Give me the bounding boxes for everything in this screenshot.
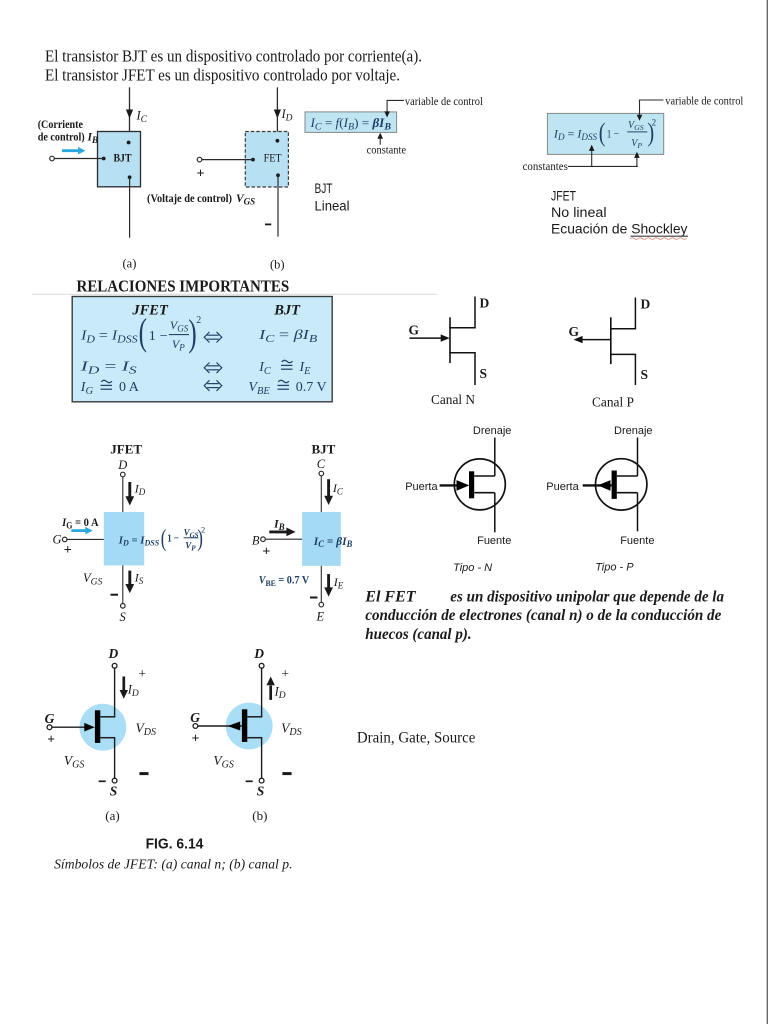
svg-text:(a): (a) [105, 808, 119, 823]
base current arrow [269, 530, 288, 533]
svg-text:VGS: VGS [64, 753, 84, 771]
drain bar [449, 327, 475, 329]
svg-text:+: + [281, 666, 289, 681]
spellcheck squiggle [631, 238, 687, 240]
source lead [261, 738, 263, 779]
svg-text:Lineal: Lineal [315, 199, 350, 214]
channel bar [95, 710, 100, 743]
page right edge scan border [767, 0, 768, 1024]
pointer wire to variable de control [640, 100, 664, 115]
svg-text:variable de control: variable de control [665, 95, 743, 107]
svg-text:D: D [480, 296, 490, 311]
emitter wire [320, 566, 322, 602]
svg-text:Puerta: Puerta [405, 481, 438, 493]
svg-text:RELACIONES IMPORTANTES: RELACIONES IMPORTANTES [77, 277, 290, 296]
pointer wire to variable de control [387, 100, 404, 112]
svg-text:D: D [253, 646, 264, 661]
drain lead [261, 668, 263, 717]
svg-text:VDS: VDS [281, 720, 301, 738]
svg-text:S: S [641, 367, 649, 382]
source terminal [121, 604, 126, 609]
svg-text:IS: IS [134, 571, 144, 587]
channel bar [449, 317, 451, 363]
gate wire with arrow [409, 337, 444, 339]
svg-text:Ecuación de Shockley: Ecuación de Shockley [551, 222, 688, 237]
channel bar [612, 471, 617, 499]
svg-text:ID: ID [134, 482, 146, 498]
svg-text:El FET: El FET [364, 589, 416, 606]
channel bar [469, 471, 474, 498]
equivalence arrow row2 [207, 365, 219, 367]
svg-text:C: C [317, 457, 326, 471]
svg-text:JFET: JFET [551, 189, 576, 204]
base wire [265, 538, 302, 540]
source inner wire [247, 737, 262, 739]
base wire [54, 158, 103, 160]
junction dot drain [276, 139, 280, 143]
source inner wire [617, 492, 638, 494]
svg-text:El transistor JFET es un dispo: El transistor JFET es un dispositivo con… [45, 66, 400, 85]
svg-text:Fuente: Fuente [620, 535, 654, 547]
highlight circle [80, 704, 127, 751]
gate wire [202, 159, 253, 161]
svg-text:G: G [409, 323, 420, 338]
svg-text:(b): (b) [252, 808, 267, 823]
svg-text:2: 2 [201, 524, 205, 534]
collector wire into BJT block [129, 87, 131, 142]
svg-text:JFET: JFET [131, 303, 169, 319]
svg-text:VBE = 0.7 V: VBE = 0.7 V [259, 575, 310, 588]
junction dot base [102, 157, 106, 161]
source lead [637, 493, 639, 532]
svg-text:Canal N: Canal N [431, 392, 475, 407]
base terminal node [50, 156, 55, 161]
svg-text:(Voltaje de control): (Voltaje de control) [147, 193, 232, 205]
svg-text:1 −: 1 − [149, 329, 168, 344]
svg-text:Tipo - P: Tipo - P [595, 561, 634, 573]
drain terminal [121, 472, 126, 477]
current arrow I_E [327, 574, 330, 589]
minus mark near S [99, 780, 106, 782]
gate wire with arrow [52, 726, 86, 728]
svg-text:BJT: BJT [312, 441, 336, 456]
equivalence arrow row1 [207, 334, 219, 336]
svg-text:Drain, Gate, Source: Drain, Gate, Source [357, 730, 476, 747]
svg-text:1 −: 1 − [167, 533, 179, 545]
svg-text:BJT: BJT [315, 181, 333, 196]
source terminal [259, 778, 264, 783]
svg-text:(b): (b) [270, 258, 285, 272]
source lead [494, 493, 496, 533]
svg-text:D: D [108, 646, 119, 661]
svg-text:ID: ID [127, 683, 139, 700]
gate wire with outward arrow [583, 484, 612, 486]
equivalence arrow row3 [207, 383, 219, 385]
pointer wires from constantes [568, 165, 638, 167]
svg-text:IB: IB [273, 516, 285, 532]
FET block (b) [245, 132, 288, 188]
svg-text:2: 2 [196, 315, 201, 326]
svg-text:+: + [64, 543, 72, 558]
collector terminal [319, 471, 324, 476]
underline of Shockley [631, 235, 689, 237]
svg-text:S: S [480, 366, 488, 381]
drain lead [637, 438, 639, 477]
source bar [449, 352, 475, 354]
JFET canal N symbol: drain lead [474, 297, 476, 328]
gate terminal [47, 725, 52, 730]
svg-text:es un dispositivo unipolar que: es un dispositivo unipolar que depende d… [450, 589, 724, 606]
BJT equation block [302, 512, 341, 566]
control current arrow (cyan) [62, 149, 80, 152]
svg-text:IC: IC [136, 109, 148, 126]
JFET equation box (Shockley) [547, 113, 663, 154]
faint rule [32, 293, 437, 295]
svg-text:No lineal: No lineal [551, 205, 607, 220]
minus mark right [139, 772, 148, 775]
svg-text:El transistor BJT es un dispos: El transistor BJT es un dispositivo cont… [45, 47, 422, 66]
svg-text:G: G [53, 532, 62, 546]
svg-text:+: + [47, 731, 55, 746]
current arrow I_D up [269, 686, 272, 700]
svg-text:constantes: constantes [523, 161, 569, 173]
gate wire [67, 538, 104, 540]
emitter terminal [319, 602, 324, 607]
source bar [610, 353, 636, 355]
transistor circle [596, 459, 647, 510]
minus polarity mark [111, 594, 119, 596]
minus mark near S [246, 780, 253, 782]
relations table box [72, 297, 332, 402]
junction dot collector [127, 141, 131, 145]
svg-text:IB: IB [87, 132, 99, 146]
svg-text:+: + [138, 666, 146, 681]
svg-text:B: B [252, 534, 260, 548]
source lead [474, 353, 476, 385]
source wire [122, 565, 124, 603]
current arrow I_D down [122, 677, 125, 692]
minus mark right [282, 772, 291, 775]
highlight circle [226, 703, 273, 750]
svg-text:(: ( [599, 119, 606, 148]
drain terminal [259, 663, 264, 668]
svg-text:G: G [569, 324, 580, 339]
svg-text:D: D [641, 297, 651, 312]
minus polarity mark [310, 597, 318, 599]
svg-text:VP: VP [185, 540, 196, 552]
pointer wire from constante [379, 138, 381, 145]
drain terminal [112, 663, 117, 668]
svg-text:S: S [110, 784, 118, 799]
gate terminal [62, 537, 67, 542]
svg-text:Fuente: Fuente [477, 535, 511, 547]
BJT equation box [305, 112, 397, 132]
transistor circle [454, 459, 505, 510]
source wire [277, 175, 279, 236]
drain inner wire [100, 716, 115, 718]
svg-text:VGS: VGS [236, 193, 255, 207]
svg-text:Tipo - N: Tipo - N [453, 562, 492, 574]
svg-text:constante: constante [367, 145, 407, 157]
svg-text:0 A: 0 A [119, 380, 140, 395]
source inner wire [100, 737, 115, 739]
svg-text:huecos (canal p).: huecos (canal p). [365, 626, 471, 643]
source lead [114, 738, 116, 779]
current arrow I_S [128, 571, 131, 586]
svg-text:(a): (a) [123, 257, 137, 271]
svg-text:IC: IC [332, 481, 344, 497]
svg-text:E: E [316, 610, 325, 624]
channel bar [242, 709, 247, 742]
drain lead [114, 668, 116, 717]
JFET equation block [104, 512, 144, 565]
svg-text:ID: ID [281, 107, 293, 124]
junction dot gate [251, 158, 255, 162]
control arrow (cyan) [71, 529, 86, 532]
current arrow I_C [126, 110, 133, 119]
svg-text:2: 2 [652, 118, 657, 128]
current arrow I_D [128, 482, 131, 498]
drain wire [122, 477, 124, 512]
svg-text:(: ( [161, 524, 167, 552]
svg-text:BJT: BJT [114, 153, 132, 165]
svg-text:VGS: VGS [83, 571, 103, 588]
svg-text:variable de control: variable de control [405, 96, 483, 108]
svg-text:G: G [190, 710, 200, 725]
BJT block (a) [98, 132, 141, 187]
emitter wire [129, 177, 131, 237]
junction dot emitter [128, 175, 132, 179]
svg-text:Canal P: Canal P [592, 394, 634, 409]
svg-text:IE: IE [333, 575, 344, 591]
svg-text:+: + [197, 167, 205, 182]
svg-text:VDS: VDS [136, 720, 156, 738]
svg-text:Drenaje: Drenaje [614, 425, 653, 437]
svg-text:conducción de electrones (cana: conducción de electrones (canal n) o de … [365, 607, 721, 624]
svg-text:VGS: VGS [213, 753, 233, 771]
svg-text:+: + [262, 545, 270, 560]
drain inner wire [617, 475, 638, 477]
svg-text:S: S [257, 784, 265, 799]
svg-text:Símbolos de JFET: (a) canal n;: Símbolos de JFET: (a) canal n; (b) canal… [54, 858, 292, 873]
svg-text:Drenaje: Drenaje [473, 425, 512, 437]
drain lead [494, 438, 496, 477]
svg-text:(: ( [139, 310, 147, 353]
svg-text:+: + [192, 731, 200, 746]
JFET canal P symbol: drain lead [634, 298, 636, 329]
svg-text:D: D [117, 458, 127, 472]
svg-text:0.7 V: 0.7 V [296, 380, 327, 395]
current arrow I_D [274, 110, 281, 119]
svg-text:ID: ID [274, 684, 286, 701]
gate wire with outward arrow [198, 725, 242, 727]
gate terminal [193, 724, 198, 729]
svg-text:S: S [120, 610, 127, 624]
svg-text:(Corriente: (Corriente [38, 119, 83, 131]
svg-text:IG = 0 A: IG = 0 A [61, 515, 99, 531]
source lead [634, 354, 636, 385]
svg-text:FET: FET [264, 153, 282, 165]
minus polarity mark [265, 223, 271, 225]
svg-text:G: G [45, 711, 55, 726]
source terminal [112, 778, 117, 783]
drain wire into FET block [276, 87, 278, 141]
svg-text:FIG. 6.14: FIG. 6.14 [146, 837, 204, 853]
gate wire with outward arrow [578, 339, 611, 341]
svg-text:BJT: BJT [273, 303, 301, 319]
gate terminal node [197, 157, 202, 162]
current arrow I_C [327, 479, 330, 497]
gate wire with arrow [440, 484, 459, 486]
source inner wire [474, 492, 495, 494]
svg-text:1 −: 1 − [607, 127, 619, 141]
collector wire [320, 476, 322, 512]
svg-text:de control): de control) [38, 132, 85, 144]
svg-text:Puerta: Puerta [546, 481, 579, 493]
base terminal [261, 537, 266, 542]
drain inner wire [474, 475, 495, 477]
drain inner wire [247, 716, 262, 718]
channel bar [610, 317, 612, 364]
drain bar [610, 328, 636, 330]
junction dot source [276, 173, 280, 177]
svg-text:JFET: JFET [110, 441, 142, 456]
